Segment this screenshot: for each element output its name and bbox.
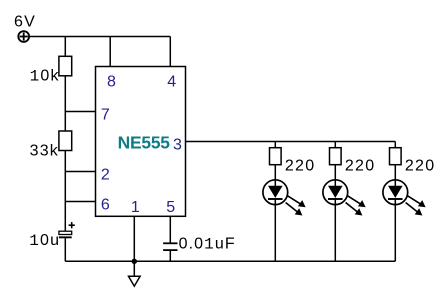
svg-text:10k: 10k	[30, 67, 60, 85]
svg-text:3: 3	[173, 137, 182, 154]
wire: pin 3 output rail	[186, 141, 396, 143]
op-amp/timer IC U1 NE555 body	[96, 67, 186, 217]
wire: rail to 10k resistor top	[64, 37, 66, 57]
wire: rail to pin 8	[109, 37, 111, 67]
LED	[383, 180, 408, 205]
wire: pin 1 to ground rail	[133, 216, 135, 261]
svg-text:220: 220	[405, 157, 435, 174]
resistor 220	[330, 148, 342, 165]
LED branch 2	[323, 142, 375, 262]
wire: pin 5 to 0.01uF cap	[169, 216, 171, 243]
svg-text:220: 220	[285, 157, 315, 174]
LED	[263, 180, 288, 205]
wire: 10k bottom to 33k top	[64, 76, 66, 131]
LED light arrows	[406, 196, 426, 216]
svg-text:5: 5	[166, 199, 175, 216]
wire: pin 6 stub	[65, 201, 95, 203]
resistor 33k	[59, 131, 72, 151]
LED branch 1	[263, 142, 315, 262]
LED	[323, 180, 348, 205]
wire: LED to ground rail	[334, 198, 336, 261]
wire: rail to R top	[274, 142, 276, 148]
wire: LED to ground rail	[394, 198, 396, 261]
svg-text:33k: 33k	[30, 143, 59, 160]
svg-text:NE555: NE555	[118, 133, 171, 153]
wire: rail to R top	[394, 142, 396, 148]
wire: rail to R top	[334, 142, 336, 148]
svg-text:0.01uF: 0.01uF	[179, 236, 236, 254]
wire: pin 7 stub	[65, 111, 95, 113]
svg-text:10u: 10u	[29, 232, 60, 250]
LED light arrows	[346, 196, 366, 216]
LED light arrows	[286, 196, 306, 216]
power supply symbol (+6V)	[18, 31, 29, 42]
wire: LED to ground rail	[274, 198, 276, 261]
wire: bottom ground rail	[65, 260, 395, 262]
svg-text:6: 6	[101, 196, 110, 213]
wire: rail to pin 4	[169, 37, 171, 67]
svg-text:7: 7	[101, 106, 110, 123]
wire: 10u bottom to ground rail	[64, 238, 66, 261]
junction dot at pin1/ground	[132, 259, 137, 264]
svg-text:2: 2	[101, 166, 110, 183]
wire: pin 2 stub	[65, 171, 95, 173]
wire: 33k bottom to 10u cap	[64, 151, 66, 232]
wire: R bottom to LED	[334, 165, 336, 186]
svg-text:1: 1	[131, 199, 140, 216]
svg-text:6V: 6V	[14, 13, 36, 30]
resistor 10k	[59, 56, 72, 76]
svg-text:4: 4	[167, 74, 176, 91]
wire: top supply rail	[29, 36, 170, 38]
wire: 0.01uF to ground rail	[169, 250, 171, 261]
resistor 220	[270, 148, 282, 165]
ground	[129, 261, 141, 286]
wire: R bottom to LED	[274, 165, 276, 186]
LED branch 3	[383, 142, 435, 262]
capacitor 10u (electrolytic, polarised)	[59, 222, 75, 238]
capacitor C 0.01uF	[163, 243, 177, 250]
svg-text:8: 8	[107, 74, 116, 91]
svg-text:220: 220	[345, 157, 375, 174]
resistor 220	[390, 148, 402, 165]
wire: R bottom to LED	[394, 165, 396, 186]
